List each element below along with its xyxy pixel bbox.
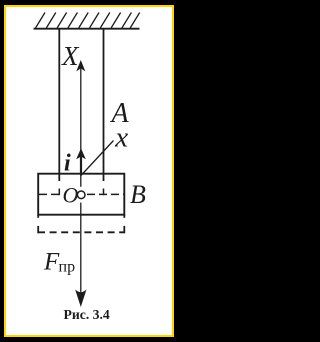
left wire dash inside box: [58, 189, 60, 196]
box corner stubs below bottom edge: [37, 215, 39, 218]
right wire dash inside box: [103, 189, 105, 196]
diagonal leader line to x: [81, 141, 114, 177]
dashed center line of box: [39, 193, 124, 195]
white mask for O and circle: [62, 187, 87, 203]
svg-text:B: B: [130, 180, 146, 209]
svg-text:Рис. 3.4: Рис. 3.4: [64, 307, 110, 322]
X axis arrowhead: [77, 61, 85, 71]
right wire: [103, 29, 105, 181]
svg-text:O: O: [63, 183, 79, 208]
ceiling hatching: [36, 13, 140, 29]
svg-text:x: x: [114, 122, 128, 154]
box B: [38, 174, 124, 215]
dashed rectangle bottom: [38, 231, 124, 233]
X axis line: [80, 66, 82, 292]
svg-text:X: X: [61, 41, 80, 71]
svg-text:пр: пр: [59, 259, 76, 276]
dashed rectangle sides: [37, 226, 39, 233]
origin circle: [77, 191, 85, 199]
ceiling line: [34, 28, 140, 30]
svg-text:F: F: [43, 249, 60, 276]
force arrow head: [76, 290, 86, 306]
i vector arrow: [80, 156, 82, 174]
outer black frame with yellow inner border: [4, 5, 174, 338]
svg-text:i: i: [64, 151, 71, 177]
left wire: [58, 29, 60, 181]
